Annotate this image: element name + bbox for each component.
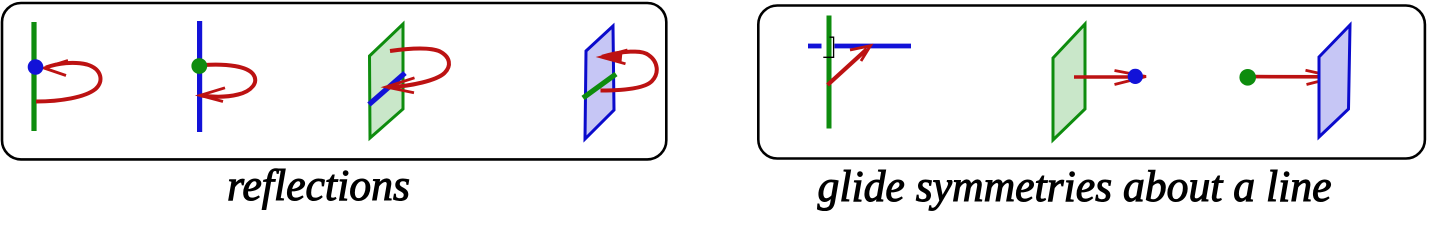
node: arrowhead (figure 6) bbox=[1115, 71, 1147, 85]
node: blue image point (figure 6) bbox=[1128, 69, 1143, 84]
wire: blue mirror line (figure 2) bbox=[197, 21, 202, 132]
node: green point on line (figure 2) bbox=[191, 58, 207, 74]
wire: green mirror line (figure 5) bbox=[827, 16, 832, 129]
node: arrowhead (figure 3) bbox=[386, 78, 415, 93]
plane: green mirror plane (figure 3) bbox=[370, 24, 404, 138]
node: arrowhead (figure 7) bbox=[1306, 70, 1337, 84]
wire: green segment in plane (figure 4) bbox=[583, 74, 616, 98]
node: arrowhead (figure 5) bbox=[850, 46, 871, 61]
box: reflections frame bbox=[2, 3, 666, 159]
node: black bracket mark (figure 5) bbox=[823, 37, 833, 57]
wire: red loop arrow (figure 4) bbox=[601, 52, 657, 91]
wire: red translation arrow (figure 7) bbox=[1253, 75, 1330, 79]
wire: red glide arrow (figure 5) bbox=[828, 49, 868, 85]
svg-text:reflections: reflections bbox=[227, 161, 410, 210]
plane: green mirror plane (figure 6) bbox=[1053, 24, 1085, 140]
wire: green mirror line (figure 1) bbox=[31, 22, 36, 131]
wire: red loop arrow (figure 3) bbox=[388, 49, 449, 88]
wire: blue translation line left part (figure 5) bbox=[808, 44, 822, 49]
node: blue point on line (figure 1) bbox=[28, 59, 44, 75]
node: arrowhead (figure 2) bbox=[200, 88, 225, 102]
wire: red translation arrow (figure 6) bbox=[1074, 75, 1142, 79]
wire: red loop arrow (figure 2) bbox=[201, 65, 255, 97]
wire: blue translation line right part (figure 5) bbox=[835, 44, 912, 49]
svg-text:glide symmetries about a line: glide symmetries about a line bbox=[818, 162, 1332, 211]
node: arrowhead (figure 1) bbox=[44, 61, 68, 76]
plane: blue mirror plane (figure 7) bbox=[1319, 25, 1350, 137]
box: glide symmetries frame bbox=[758, 6, 1425, 159]
wire: blue segment in plane (figure 3) bbox=[369, 73, 405, 105]
node: arrowhead (figure 4) bbox=[601, 52, 623, 63]
wire: red loop arrow (figure 1) bbox=[36, 63, 101, 102]
plane: blue mirror plane (figure 4) bbox=[585, 26, 614, 139]
node: green point (figure 7) bbox=[1239, 69, 1256, 86]
